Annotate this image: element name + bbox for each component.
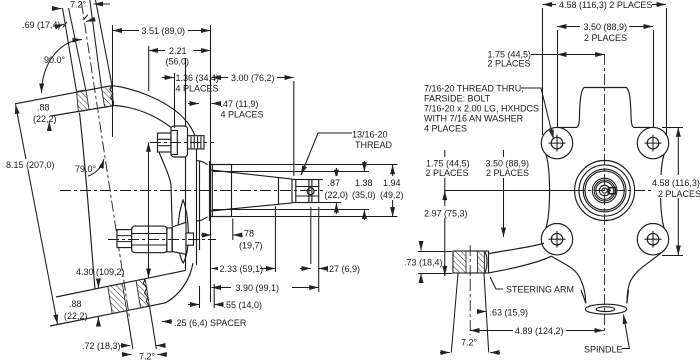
bolt TR cross (645, 135, 662, 152)
svg-text:.87: .87 (328, 178, 341, 188)
dim 2.21 (149, 50, 211, 52)
dim 8.15 slanted (16, 105, 58, 325)
ext line 1.36 (174, 73, 176, 128)
svg-text:.88: .88 (37, 103, 50, 113)
svg-text:(22,2): (22,2) (33, 114, 57, 124)
bolt BR cross (645, 231, 662, 248)
svg-text:THREAD: THREAD (355, 140, 393, 150)
ext line 2.33 (274, 206, 276, 272)
dim 1.38 (363, 161, 365, 172)
svg-text:STEERING ARM: STEERING ARM (506, 285, 574, 295)
svg-text:4.89 (124,2): 4.89 (124,2) (515, 326, 564, 336)
steering arm top edge (489, 243, 544, 253)
ear lobe TR (637, 127, 668, 158)
ext lines 1.94 (232, 165, 398, 217)
ext lines .87 (319, 180, 341, 203)
dim 3.50 top (557, 26, 653, 28)
svg-text:90.0°: 90.0° (44, 55, 66, 65)
casting edge between bosses (158, 150, 172, 226)
bolt ear BR (647, 233, 659, 245)
dim .69 ticks (63, 15, 88, 28)
arm clamp end curve (485, 251, 487, 273)
ext line flange face (shared) (210, 25, 212, 302)
ext line 3.51 left (112, 25, 114, 137)
dim 4.58 top (543, 4, 667, 6)
lower stud centerline (108, 239, 216, 241)
body left wall (80, 113, 96, 289)
dim .55 arrows (188, 304, 200, 306)
flange lip bottom (197, 217, 208, 221)
body top outline (112, 86, 195, 136)
svg-text:7.2°: 7.2° (461, 338, 478, 348)
svg-text:(22,0): (22,0) (325, 190, 349, 200)
svg-text:.25 (6,4) SPACER: .25 (6,4) SPACER (174, 318, 247, 328)
bolt BL cross (549, 231, 566, 248)
dim 3.90 (212, 287, 319, 289)
lower nut (186, 233, 194, 245)
lower boss block (132, 226, 167, 253)
left waist (546, 154, 550, 228)
hub center dot (602, 188, 607, 193)
svg-text:4 PLACES: 4 PLACES (221, 110, 264, 120)
steering arm bottom edge (side view) (50, 263, 193, 326)
svg-text:3.00 (76,2): 3.00 (76,2) (231, 73, 275, 83)
LEFT DIMS (5, 0, 407, 362)
hub circle 6 (594, 180, 615, 201)
upper stud thread end (188, 136, 205, 149)
hub circle 2 (579, 165, 630, 216)
svg-text:.88: .88 (69, 299, 82, 309)
dim 4.89 (470, 330, 604, 332)
plate back edge (185, 58, 187, 271)
svg-text:2 PLACES: 2 PLACES (426, 168, 469, 178)
svg-text:4 PLACES: 4 PLACES (176, 84, 219, 94)
lower cone boss (172, 222, 186, 254)
bolt ear TL (551, 137, 563, 149)
svg-text:1.75 (44,5): 1.75 (44,5) (426, 159, 470, 169)
svg-text:4.58 (116,3): 4.58 (116,3) (652, 178, 700, 188)
pin right side (627, 250, 665, 304)
right waist (661, 154, 665, 228)
hub circle outer (575, 161, 635, 221)
spindle pin ellipse (585, 304, 626, 314)
hub centerline ext left (445, 190, 574, 192)
thread relief line (295, 179, 297, 203)
hub disc lip line (199, 161, 201, 250)
upper stud hex facets (158, 139, 172, 145)
spindle thread body (292, 180, 319, 203)
dim 3.51 (113, 30, 211, 32)
svg-text:13/16-20: 13/16-20 (352, 130, 388, 140)
dim 4.30 (148, 142, 150, 278)
dim .72 arrows (121, 345, 131, 347)
spindle taper bottom (211, 203, 293, 211)
cast slot lens (178, 200, 189, 263)
ext lines .27 (311, 207, 319, 292)
wire strut lower ext right (150, 306, 157, 349)
hatch lower strip 1 (108, 283, 127, 313)
dim 2.33 (212, 268, 276, 270)
break zigzag upper boss (110, 86, 114, 106)
ext lines 3.50 top (558, 30, 654, 128)
body inner top curve (115, 106, 172, 129)
arm tilt line left (451, 274, 458, 353)
wire strut left edge L1 (63, 8, 77, 92)
svg-text:(49,2): (49,2) (380, 190, 404, 200)
svg-text:2 PLACES: 2 PLACES (584, 33, 627, 43)
svg-text:2 PLACES: 2 PLACES (486, 168, 529, 178)
cotter slot bottom (296, 195, 319, 197)
svg-text:(35,0): (35,0) (352, 190, 376, 200)
steering arm top edge (side view) (56, 270, 186, 297)
spindle shaft centerline (60, 190, 332, 192)
svg-text:SPINDLE: SPINDLE (584, 345, 623, 355)
hub vertical centerline (604, 54, 606, 335)
arm clamp block (453, 251, 489, 273)
hub disc back face (231, 165, 233, 217)
upper stud centerline (150, 142, 214, 144)
dim .87 (335, 168, 337, 179)
dim 1.94 (392, 165, 394, 217)
hub disc bottom edge (209, 216, 232, 218)
lower boss facets (132, 234, 167, 246)
svg-text:3.90 (99,1): 3.90 (99,1) (236, 283, 280, 293)
ear lobe TL (541, 127, 572, 158)
label spindle leader (622, 315, 630, 349)
dim .78 arrows (201, 234, 212, 236)
upper boss top face (15, 86, 112, 104)
dim 7.2 right arrows (440, 352, 450, 354)
arm clamp hatch left (453, 251, 466, 273)
kingpin centerline (82, 3, 130, 318)
dim 1.36 arrow (162, 77, 174, 79)
ext line 3.00 right (293, 81, 295, 176)
hatch upper strip 1 (77, 90, 90, 112)
ext lines 4.58 top (543, 8, 667, 135)
arm clamp hatch right (478, 251, 485, 273)
arm bolt centerline (469, 245, 471, 280)
ext lines .55 (200, 284, 215, 308)
svg-text:.63 (15,9): .63 (15,9) (490, 308, 529, 318)
arm tilt line right (484, 274, 489, 353)
label 1.75 mid (423, 157, 529, 178)
dim 7.2 bottom (122, 354, 131, 356)
hatch upper strip 2 (101, 86, 113, 108)
svg-text:7.2°: 7.2° (70, 0, 87, 10)
arm CL ext dashed (469, 280, 471, 335)
svg-text:2 PLACES: 2 PLACES (488, 59, 531, 69)
hub circle 3 (583, 169, 626, 212)
svg-text:79.0°: 79.0° (75, 164, 97, 174)
svg-text:3.50 (88,9): 3.50 (88,9) (486, 159, 530, 169)
hub circle 8 (599, 185, 610, 196)
lower stud hex facets (117, 236, 132, 242)
top plate shoulder and tower (557, 88, 653, 128)
svg-text:(22,2): (22,2) (64, 311, 88, 321)
dim .47 arrows (188, 103, 199, 105)
circlip groove lines (309, 179, 312, 203)
ext line 3.50 mid (503, 150, 505, 237)
dim 79.0 arc (88, 159, 104, 176)
dim 3.00 (212, 77, 294, 79)
ear lobe BR (637, 224, 668, 255)
wire strut hole edge L3 (90, 0, 102, 87)
spindle pin sides (581, 290, 629, 303)
svg-text:.27 (6,9): .27 (6,9) (327, 264, 361, 274)
lower stud washer (167, 228, 172, 252)
RIGHT VIEW (451, 54, 668, 353)
dim .27 arrows (300, 268, 311, 270)
dim 1.75 top (531, 54, 605, 56)
svg-text:.73 (18,4): .73 (18,4) (404, 258, 443, 268)
svg-text:1.94: 1.94 (383, 178, 401, 188)
svg-text:4 PLACES: 4 PLACES (424, 124, 467, 134)
wire strut lower ext left (127, 311, 133, 349)
ext line 2.21 (148, 46, 150, 91)
upper stud hex head (158, 133, 172, 152)
label .25 spacer leader (162, 321, 172, 323)
svg-text:7.2°: 7.2° (139, 352, 156, 362)
note leader (521, 88, 554, 139)
dim .88 top arrows (48, 122, 50, 132)
svg-text:7/16-20 THREAD THRU,: 7/16-20 THREAD THRU, (424, 84, 524, 94)
upper stud thread ticks (191, 137, 201, 149)
label 13/16-20 THREAD leader (301, 133, 352, 175)
svg-text:(19,7): (19,7) (239, 241, 263, 251)
hatch lower strip 2 (136, 279, 149, 308)
dim 90.0 arc (42, 40, 83, 94)
wire strut right edge L4 (96, 0, 113, 86)
hub circle 5 (592, 178, 617, 203)
svg-text:3.50 (88,9): 3.50 (88,9) (584, 22, 628, 32)
flange lip top (197, 161, 208, 165)
cotter hole (307, 188, 314, 195)
dim 4.58 right (677, 127, 679, 255)
svg-text:WITH 7/16 AN WASHER: WITH 7/16 AN WASHER (424, 114, 524, 124)
LEFT VIEW (15, 0, 332, 349)
hub key rect (608, 188, 615, 194)
bolt ear BL (551, 233, 563, 245)
svg-text:1.38: 1.38 (355, 178, 373, 188)
svg-text:4.30 (109,2): 4.30 (109,2) (76, 267, 125, 277)
svg-text:3.51 (89,0): 3.51 (89,0) (142, 26, 186, 36)
hub circle 4 (585, 171, 624, 210)
svg-text:.69 (17,4): .69 (17,4) (22, 20, 61, 30)
svg-text:8.15 (207,0): 8.15 (207,0) (6, 160, 55, 170)
upper stud washer (171, 131, 177, 155)
dim .73 arrows (420, 241, 422, 251)
svg-text:2.33 (59,1): 2.33 (59,1) (220, 264, 264, 274)
break zigzag lower boss (143, 279, 149, 306)
cotter slot top (296, 186, 319, 188)
hub disc front face inner (211, 165, 213, 217)
upper boss bottom face (51, 105, 115, 116)
ext lines 1.38 (213, 172, 369, 210)
dim 2.97 (444, 150, 446, 276)
RIGHT DIMS (404, 0, 700, 355)
hub horizontal centerline (574, 190, 652, 192)
svg-text:4.58 (116,3) 2 PLACES: 4.58 (116,3) 2 PLACES (559, 0, 652, 10)
upper boss block (171, 126, 188, 157)
svg-text:.78: .78 (242, 229, 255, 239)
plate front edge (196, 136, 198, 266)
dim .63 arrow (477, 311, 487, 313)
svg-text:(56,0): (56,0) (166, 57, 190, 67)
svg-text:.72 (18,3): .72 (18,3) (82, 341, 121, 351)
ext lines .73 (418, 252, 452, 274)
svg-text:.55 (14,0): .55 (14,0) (224, 300, 263, 310)
steering arm bottom edge (489, 256, 552, 273)
hub disc front face (209, 161, 211, 221)
hub disc top edge (209, 164, 232, 166)
bolt TL cross (549, 135, 566, 152)
bolt ear TR (647, 137, 659, 149)
svg-text:.47 (11,9): .47 (11,9) (221, 99, 259, 109)
svg-text:7/16-20 x 2.00 LG, HXHDCS: 7/16-20 x 2.00 LG, HXHDCS (424, 104, 539, 114)
wire strut hole edge L2 (69, 8, 86, 90)
pin left side (552, 256, 586, 303)
spindle pin inner ellipse (596, 307, 614, 312)
spindle taper top (211, 170, 293, 179)
spindle taper step (278, 178, 280, 205)
svg-text:FARSIDE: BOLT: FARSIDE: BOLT (424, 94, 491, 104)
ext line .78 (232, 219, 234, 241)
svg-text:2.97 (75,3): 2.97 (75,3) (424, 209, 468, 219)
label steering arm leader (490, 277, 503, 289)
ext ticks 4.58 right (662, 128, 683, 256)
hub circle 7 (596, 182, 614, 200)
svg-text:2 PLACES: 2 PLACES (658, 189, 700, 199)
lower stud hex head (117, 230, 132, 248)
dim .69 arrows (58, 24, 64, 26)
svg-text:2.21: 2.21 (169, 46, 187, 56)
ear lobe BL (541, 224, 572, 255)
